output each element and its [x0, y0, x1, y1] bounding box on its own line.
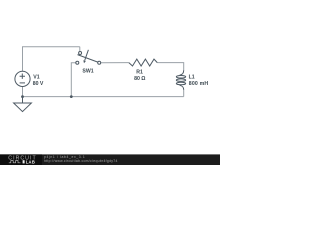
svg-text:800 mH: 800 mH	[189, 81, 209, 87]
wire switch right terminal to resistor R1	[101, 62, 129, 64]
svg-text:80 Ω: 80 Ω	[134, 76, 145, 82]
wire inductor bottom to bottom rail	[183, 90, 185, 97]
wire top-left vertical from V1 to top rail	[22, 47, 24, 71]
wire bottom rail	[23, 96, 184, 98]
wire resistor R1 to inductor L1 top corner	[157, 63, 183, 71]
svg-text:SW1: SW1	[82, 69, 93, 75]
voltage source V1	[15, 71, 30, 86]
wire V1 bottom to bottom rail junction	[22, 87, 24, 97]
svg-text:80 V: 80 V	[33, 81, 44, 87]
watermark logo LAB text	[23, 160, 25, 163]
switch SW1 actuator arrowhead	[83, 60, 86, 63]
svg-text:http://www.circuitlab.com/c/eq: http://www.circuitlab.com/c/equbr4fgdy74	[44, 159, 118, 163]
junction node at V1 / ground / bottom rail	[21, 95, 24, 98]
resistor R1	[129, 59, 158, 66]
svg-text:R1: R1	[136, 70, 143, 76]
watermark bar	[0, 154, 220, 165]
wire down to switch top terminal	[79, 47, 81, 52]
wire from switch lower-left terminal down to bottom rail	[71, 63, 76, 97]
inductor L1	[176, 70, 185, 90]
watermark logo box	[0, 154, 42, 165]
switch SW1	[76, 50, 101, 65]
junction node at switch branch / bottom rail	[70, 95, 73, 98]
svg-text:LAB: LAB	[26, 160, 35, 165]
ground	[14, 97, 32, 112]
watermark logo waveform	[9, 161, 21, 163]
svg-text:L1: L1	[189, 74, 195, 80]
svg-text:V1: V1	[33, 74, 39, 80]
wire top rail	[22, 46, 80, 48]
